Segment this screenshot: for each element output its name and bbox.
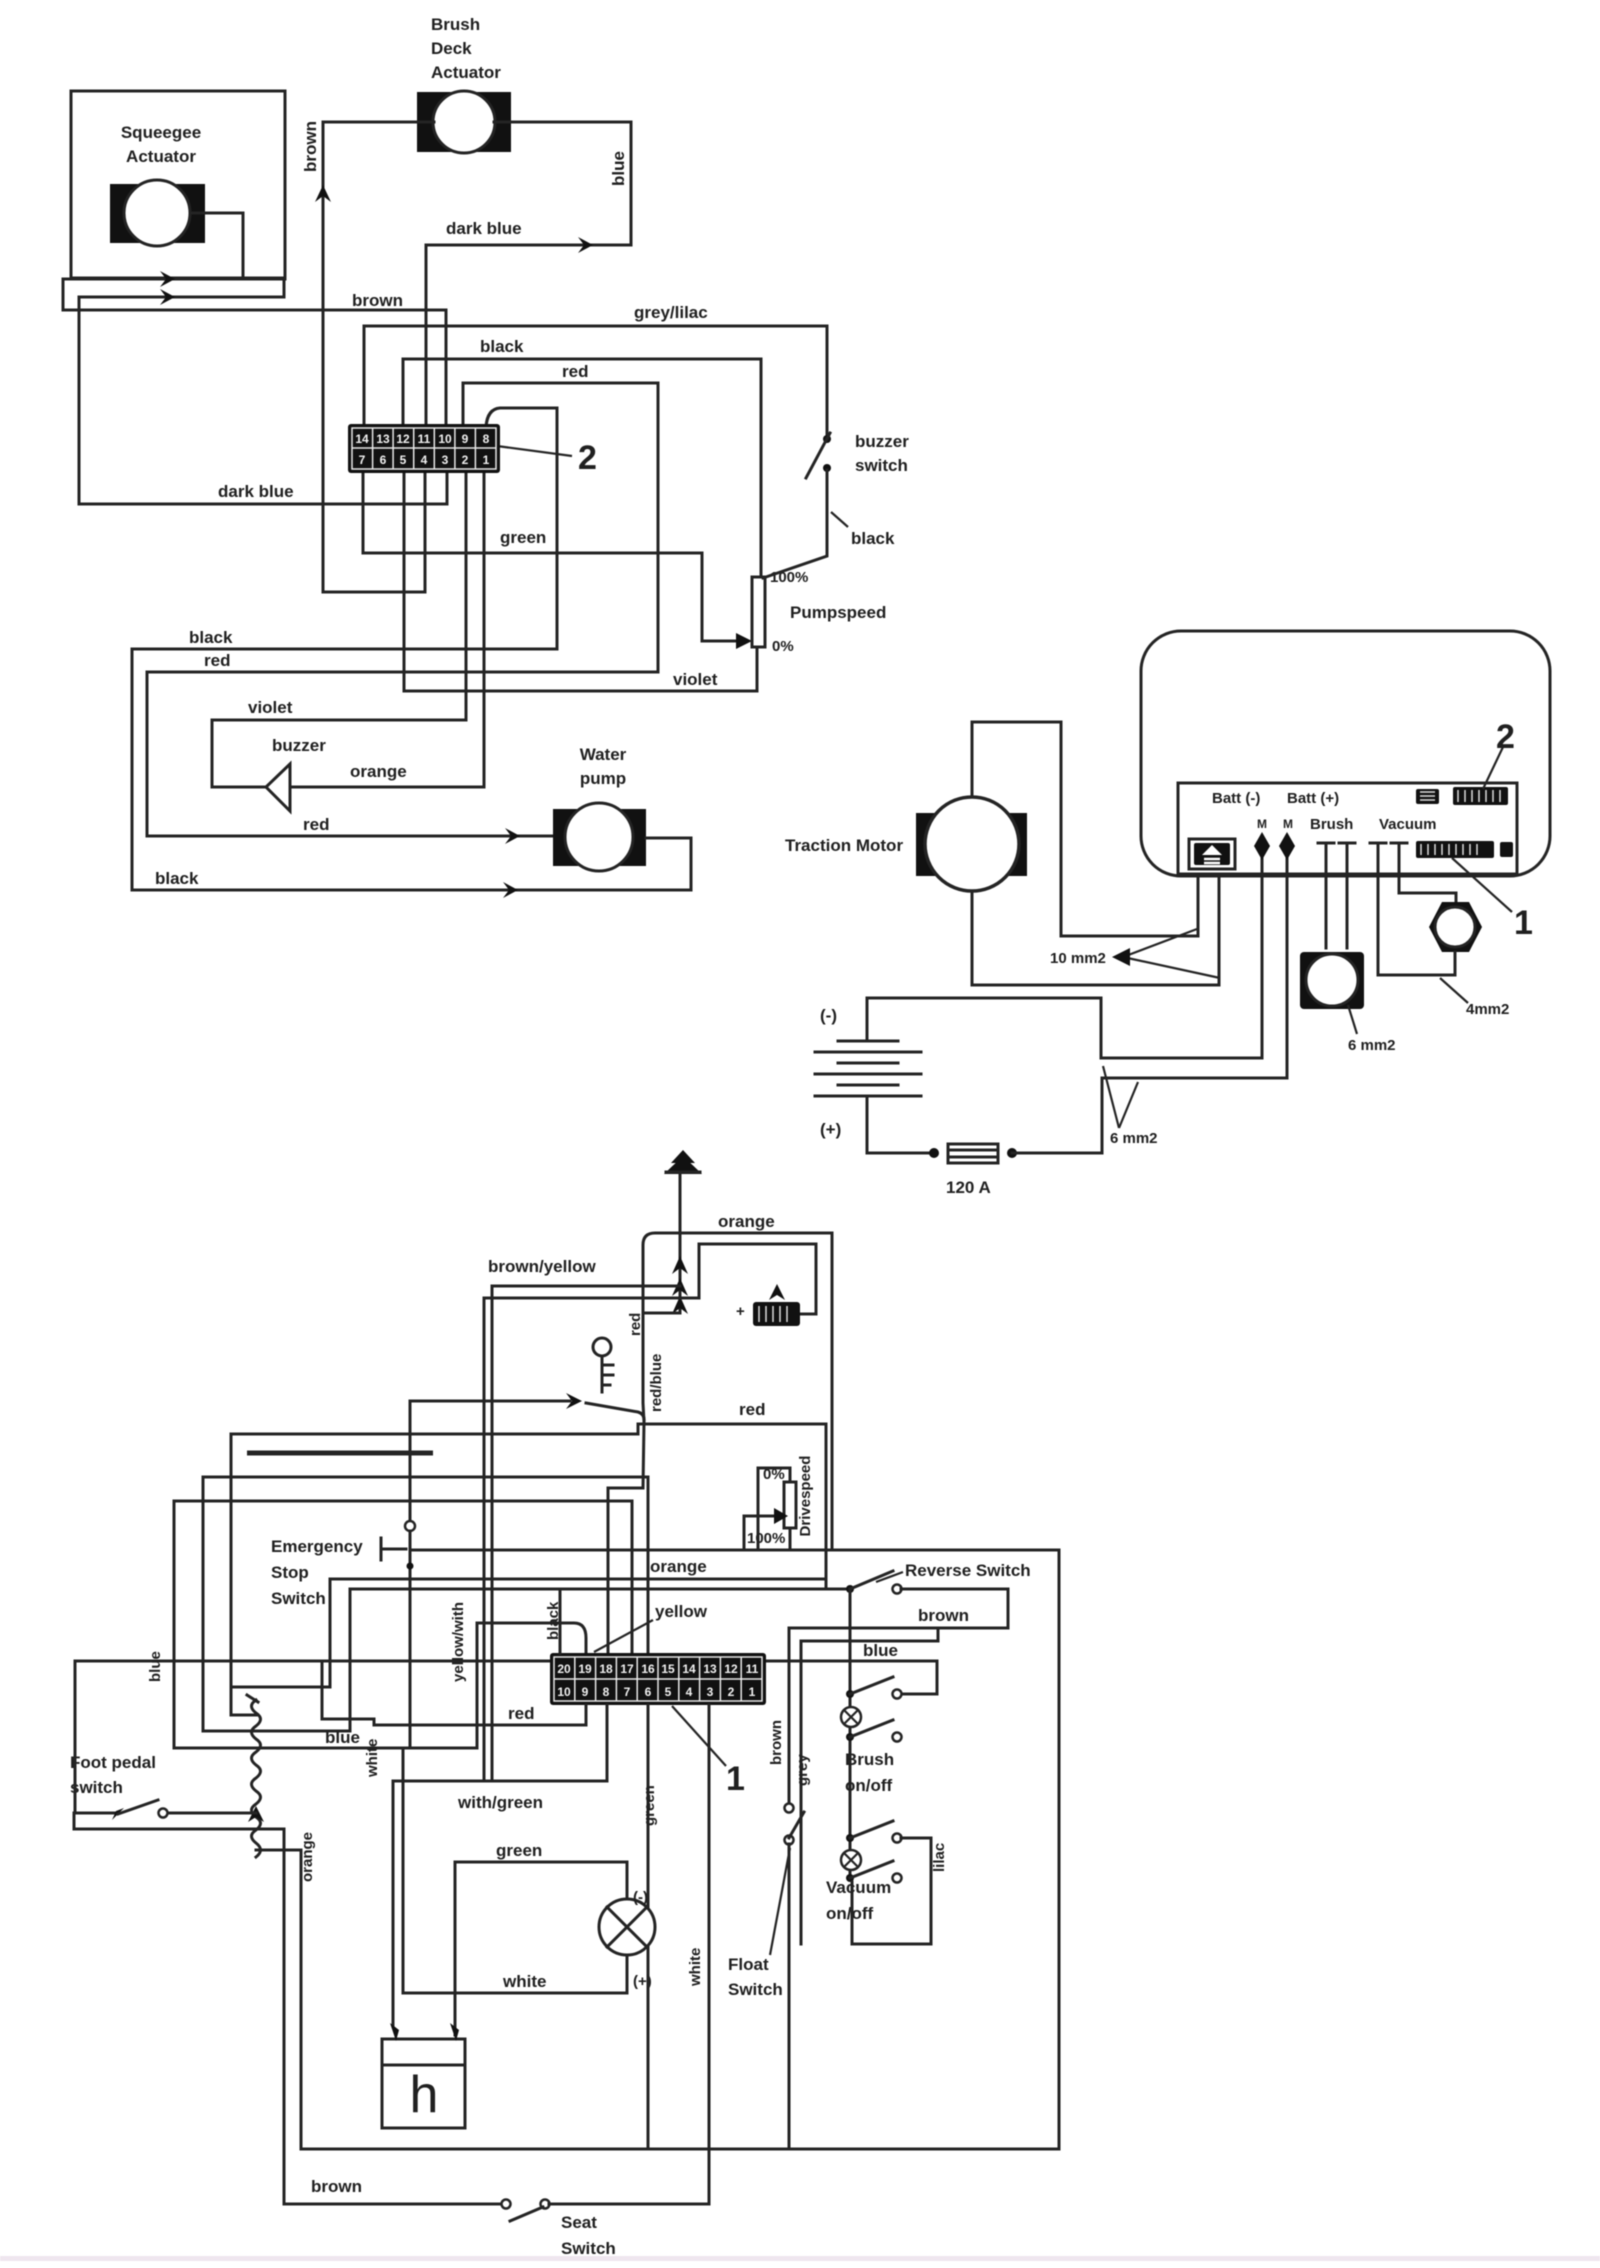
arrow hourmeter right [450,2023,459,2041]
svg-text:brown: brown [352,291,403,310]
ground symbol [664,1150,702,1174]
wire float down [788,1844,791,2149]
brush switch [841,1677,902,1742]
svg-text:10 mm2: 10 mm2 [1050,950,1106,967]
svg-text:14: 14 [682,1662,696,1676]
svg-text:red: red [508,1704,534,1723]
arrow green pot wiper [736,633,752,649]
spring top hook [247,1695,258,1702]
svg-text:Vacuum: Vacuum [1379,816,1437,833]
svg-text:red/blue: red/blue [648,1354,665,1412]
svg-text:15: 15 [661,1662,675,1676]
wire W3 [330,1578,826,1581]
wire squeegee motor right [190,213,243,279]
arrow black pump [503,882,518,898]
svg-text:4: 4 [686,1685,693,1699]
svg-text:5: 5 [400,453,407,467]
svg-text:(-): (-) [820,1006,837,1025]
svg-text:1: 1 [749,1685,756,1699]
wire dark blue lower to cell3 [79,471,447,504]
arrow connector 2 [160,289,175,305]
svg-text:100%: 100% [747,1530,785,1547]
wire orange buzzer to cell1 [290,471,484,787]
wire brown brush motor left [323,122,434,592]
wire ground vertical [679,1174,682,1310]
arrow red pump [505,828,520,844]
pointer 10mm2 b [1123,957,1220,978]
svg-text:0%: 0% [772,638,794,655]
svg-text:Brush: Brush [431,15,480,34]
controller plug symbol [1189,839,1235,869]
svg-text:Emergency: Emergency [271,1537,363,1556]
svg-text:blue: blue [609,151,628,186]
wire left drop [62,279,65,310]
svg-text:Brush: Brush [845,1750,894,1769]
squeegee actuator box [71,91,285,278]
wire brush pair [1318,843,1355,948]
svg-text:10: 10 [557,1685,571,1699]
svg-text:11: 11 [418,432,431,446]
svg-text:1: 1 [726,1760,745,1798]
svg-text:brown: brown [918,1606,969,1625]
wire M1 [1261,852,1264,1058]
svg-text:violet: violet [673,670,718,689]
svg-text:2: 2 [728,1685,735,1699]
vacuum switch [841,1821,902,1883]
svg-text:green: green [496,1841,542,1860]
wire W3 drop [231,1579,330,1687]
motor M-brushdeck [417,91,511,153]
pointer 6mm2 battery a [1103,1066,1119,1128]
wire black block2 [559,1589,562,1653]
wire violet cell2 to buzzer [212,471,466,787]
arrowhead 10mm2 [1112,948,1130,966]
wire white vertical [708,1705,711,2204]
wire pot top [758,1468,790,1549]
svg-text:8: 8 [483,432,490,446]
svg-text:12: 12 [396,432,410,446]
wire traction bottom [972,876,1219,985]
svg-text:Batt (+): Batt (+) [1287,790,1339,807]
wire green vertical [647,1705,650,2149]
arrow connector 1 [160,271,175,287]
wire wiper drop [743,1516,746,1550]
arrow up on brown [315,185,331,202]
svg-text:lilac: lilac [931,1843,948,1872]
svg-text:blue: blue [863,1641,898,1660]
pointer 6mm2 battery b [1119,1082,1138,1128]
svg-text:20: 20 [557,1662,571,1676]
svg-text:brown: brown [768,1720,785,1765]
svg-text:7: 7 [624,1685,631,1699]
svg-text:Brush: Brush [1310,816,1353,833]
svg-text:h: h [410,2066,439,2124]
svg-text:18: 18 [599,1662,613,1676]
motor traction [916,797,1027,891]
svg-text:switch: switch [855,456,908,475]
svg-text:Foot pedal: Foot pedal [70,1753,156,1772]
svg-text:blue: blue [325,1728,360,1747]
svg-text:green: green [641,1785,658,1826]
arrow pot wiper [774,1508,788,1524]
svg-text:dark blue: dark blue [446,219,522,238]
hour meter [382,2039,465,2128]
svg-text:11: 11 [746,1662,759,1676]
key switch symbol [593,1338,613,1392]
wire grey/lilac cell14 to buzzer switch [364,326,827,434]
emergency stop switch [381,1401,415,1747]
svg-text:100%: 100% [770,569,808,586]
connector arrow plug [769,1284,785,1300]
wire W4 [350,1588,849,1591]
svg-text:2: 2 [462,453,469,467]
wire violet cell5 to pot bottom [404,471,757,691]
wire red cell9 [463,383,658,672]
svg-text:3: 3 [442,453,449,467]
terminal block 2 [550,1653,766,1705]
svg-text:red: red [204,651,230,670]
wire red block2 [322,1661,586,1725]
svg-text:orange: orange [350,762,407,781]
wire red lower left [147,672,658,836]
battery cells [815,1041,921,1096]
svg-text:Float: Float [728,1955,769,1974]
wire reverse brown loop [789,1589,1008,1628]
svg-text:17: 17 [620,1662,634,1676]
svg-text:yellow: yellow [655,1602,708,1621]
svg-text:14: 14 [355,432,369,446]
wire spring tap2 [203,1730,350,1733]
wire below squeegee box [63,278,285,281]
wire W1 [203,1477,648,1656]
pointer 1 [672,1706,726,1766]
svg-text:6: 6 [380,453,387,467]
wire black pump return [132,838,691,890]
switch chain vertical [849,1589,852,1878]
svg-text:6: 6 [645,1685,652,1699]
svg-text:red: red [303,815,329,834]
terminal M1 [1254,832,1270,860]
wire M2 [1286,852,1289,1078]
svg-text:Switch: Switch [561,2239,616,2258]
wire yellow drop [476,1623,479,1748]
wire inner box plug [699,1244,816,1314]
wire fuse to M2 [1012,1078,1287,1153]
wire brown/yellow 2 [484,1297,699,1300]
charger plug [753,1302,800,1326]
pointer 1 [1452,858,1512,912]
wire W2 [174,1501,632,1656]
svg-text:black: black [851,529,895,548]
svg-text:Switch: Switch [271,1589,326,1608]
wire vacuum motor bottom [1381,952,1455,975]
svg-text:brown: brown [311,2177,362,2196]
svg-text:orange: orange [299,1832,316,1882]
wire key to block2 [608,1313,644,1656]
svg-text:grey: grey [794,1754,811,1786]
wire battery plus [867,1096,934,1153]
wire orange loop [643,1233,832,1550]
svg-text:2: 2 [578,439,597,477]
float switch [785,1804,805,1845]
svg-text:1: 1 [1514,904,1533,942]
wire spring bottom [256,1850,301,2149]
wire white lamp [403,1748,627,1993]
svg-text:Actuator: Actuator [431,63,501,82]
connector icon small [1416,789,1439,804]
svg-text:yellow/with: yellow/with [450,1602,467,1682]
svg-text:(+): (+) [820,1120,841,1139]
wire brown/yellow 1 [492,1285,680,1288]
svg-text:3: 3 [707,1685,714,1699]
svg-text:switch: switch [70,1778,123,1797]
svg-text:5: 5 [665,1685,672,1699]
svg-text:M: M [1283,817,1293,831]
controller terminal strip [1178,783,1517,874]
wire W1 drop [202,1477,205,1731]
wire with/green [393,1705,607,2026]
wire blue brush motor right [494,122,631,245]
svg-text:12: 12 [724,1662,738,1676]
lamp [599,1899,655,1955]
buzzer [266,764,290,811]
wire battery minus [867,998,1262,1058]
wire blue long [75,1661,937,1694]
buzzer switch [806,433,831,478]
pointer yellow [594,1620,653,1652]
svg-text:13: 13 [376,432,390,446]
controller outline [1141,631,1550,876]
spring arrow [248,1806,264,1822]
wire left vertical to dark blue [78,297,81,504]
svg-text:16: 16 [641,1662,655,1676]
potentiometer Pumpspeed [752,577,765,647]
svg-text:Drivespeed: Drivespeed [797,1456,814,1537]
svg-text:M: M [1257,817,1267,831]
wire brown to cell10 [63,310,446,427]
svg-text:Pumpspeed: Pumpspeed [790,603,886,622]
svg-text:Reverse Switch: Reverse Switch [905,1561,1031,1580]
pointer 6mm2 [1348,1005,1357,1034]
wire buzzer switch to pot top [763,470,827,578]
svg-text:black: black [155,869,199,888]
svg-text:white: white [502,1972,546,1991]
svg-text:on/off: on/off [845,1776,893,1795]
svg-text:Batt (-): Batt (-) [1212,790,1260,807]
svg-text:with/green: with/green [457,1793,543,1812]
big box [301,1550,1059,2149]
svg-text:red: red [627,1313,644,1336]
svg-text:on/off: on/off [826,1904,874,1923]
svg-text:brown: brown [301,121,320,172]
svg-text:grey/lilac: grey/lilac [634,303,708,322]
wire knot link [643,1312,680,1315]
svg-text:1: 1 [483,453,490,467]
svg-text:19: 19 [578,1662,592,1676]
wire green lamp [455,1862,627,2035]
wire vacuum pair [1370,843,1407,975]
wire W0 drop [231,1434,256,1715]
svg-text:black: black [189,628,233,647]
svg-text:white: white [364,1739,381,1778]
wire foot loop [74,1813,506,2204]
spring coil [252,1700,261,1857]
wire black lower left [132,649,557,890]
svg-text:violet: violet [248,698,293,717]
svg-text:6 mm2: 6 mm2 [1110,1130,1158,1147]
svg-text:6 mm2: 6 mm2 [1348,1037,1396,1054]
svg-text:black: black [480,337,524,356]
svg-text:red: red [739,1400,765,1419]
wire stub [247,1451,433,1456]
svg-text:+: + [736,1303,745,1320]
motor M-squeegee [110,180,205,246]
svg-text:120 A: 120 A [946,1178,991,1197]
wire W2 drop [173,1501,176,1748]
svg-text:10: 10 [438,432,452,446]
svg-text:9: 9 [462,432,469,446]
pointer float [770,1848,790,1955]
wire green cell7 to pot wiper [363,471,738,641]
svg-text:black: black [545,1601,562,1640]
junction dot [929,1148,939,1158]
wire pot wiper [744,1515,776,1518]
connector icon 2 [1453,787,1508,805]
arrow on dark blue [578,237,593,253]
svg-text:red: red [562,362,588,381]
svg-text:orange: orange [650,1557,707,1576]
svg-text:(-): (-) [633,1889,648,1906]
svg-text:Stop: Stop [271,1563,309,1582]
svg-text:(+): (+) [633,1973,652,1990]
wire vacuum lilac loop [852,1838,931,1944]
wire blue spring [174,1747,477,1750]
wire traction top to controller [972,722,1198,936]
connector icon bottom 1 [1416,841,1513,858]
motor brush 6mm2 [1300,952,1364,1009]
arrow key [566,1393,582,1409]
wire brown/yellow drop 2 [483,1298,486,1781]
wire red W0 [231,1424,826,1589]
wire vacuum to motor [1399,893,1456,902]
pointer line to 2 [497,446,572,456]
wire loop cell8 top [486,408,557,649]
svg-text:blue: blue [147,1651,164,1682]
svg-text:brown/yellow: brown/yellow [488,1257,596,1276]
connector arrow 1 [672,1256,688,1274]
wire yellow [477,1623,586,1656]
svg-text:Deck: Deck [431,39,472,58]
pointer black [831,512,848,527]
svg-text:Seat: Seat [561,2213,597,2232]
wire dark blue to cell11 [426,245,631,427]
svg-text:dark blue: dark blue [218,482,294,501]
svg-text:Vacuum: Vacuum [826,1878,891,1897]
motor vacuum hex [1429,902,1482,952]
svg-text:orange: orange [718,1212,775,1231]
junction dot [1007,1148,1017,1158]
terminal M2 [1279,832,1295,860]
wire brown float [788,1628,791,1804]
fuse 120A [948,1144,998,1163]
svg-text:Squeegee: Squeegee [121,123,201,142]
wire emergency to key [410,1400,570,1403]
svg-text:buzzer: buzzer [855,432,909,451]
svg-text:4mm2: 4mm2 [1466,1001,1509,1018]
svg-text:4: 4 [421,453,428,467]
pointer 10mm2 a [1123,929,1197,957]
svg-text:13: 13 [703,1662,717,1676]
connector arrow 3 [672,1296,688,1314]
wire second below box [79,279,284,297]
pointer 2 [1483,747,1503,789]
arrow hourmeter left [390,2023,399,2041]
wire pot bottom [789,1528,792,1550]
svg-text:Traction Motor: Traction Motor [785,836,903,855]
seat switch [502,2200,550,2222]
wire grey [801,1628,938,1944]
svg-text:pump: pump [580,769,626,788]
motor water pump [553,803,646,871]
connector arrow 2 [672,1278,688,1296]
wire blue left drop [74,1661,77,1813]
svg-text:Actuator: Actuator [126,147,196,166]
svg-text:8: 8 [603,1685,610,1699]
pointer reverse [876,1572,903,1582]
wire W4 drop [349,1589,352,1731]
reverse switch [846,1571,902,1594]
wire red to water pump [147,835,553,838]
foot pedal switch [74,1800,256,1820]
wire black cell12 to pot top [403,359,761,577]
svg-text:9: 9 [582,1685,589,1699]
svg-text:0%: 0% [763,1466,785,1483]
svg-text:green: green [500,528,546,547]
svg-text:buzzer: buzzer [272,736,326,755]
svg-text:2: 2 [1496,718,1515,756]
svg-text:Switch: Switch [728,1980,783,1999]
wire seat to box [549,2149,709,2204]
pointer 4mm2 [1440,978,1468,1003]
svg-text:7: 7 [359,453,366,467]
terminal block 1 [348,424,500,473]
wire brown/yellow drop 1 [491,1286,494,1781]
drivespeed pot [784,1482,796,1528]
key switch blade [586,1403,644,1422]
svg-text:Water: Water [580,745,627,764]
svg-text:white: white [687,1948,704,1987]
